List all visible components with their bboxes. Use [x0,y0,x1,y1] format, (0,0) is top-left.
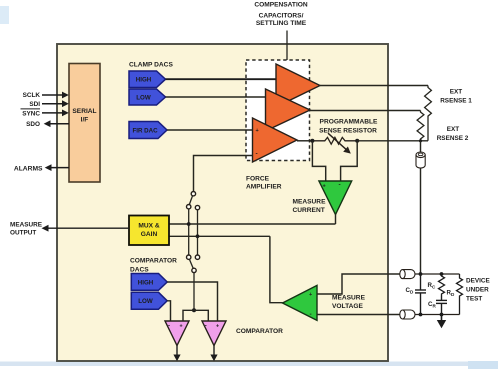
variable resistor arrow [328,133,347,150]
svg-text:+: + [256,128,259,134]
svg-text:SDO: SDO [26,121,40,128]
resistor EXT RSENSE 1 (with tail to sense node) [425,86,432,141]
top-left blue patch [0,6,9,24]
MEASURE OUTPUT label [10,221,43,236]
measure output arrowhead (points left) [42,225,49,232]
svg-text:SETTLING TIME: SETTLING TIME [256,20,307,27]
wire: feedback into A3 inverting input [194,156,254,192]
left comparator output arrow [176,346,178,356]
wire: mux input line 2 [169,235,270,237]
wire: right node down into measure-current - input [341,141,358,182]
measure voltage amp (green, points left) [283,285,318,320]
node: DUT sense [419,313,423,317]
capacitor CR [436,296,447,315]
svg-text:+: + [180,323,183,329]
right comparator output arrow [213,346,215,356]
right sense column wire [197,210,199,255]
bottom blue strip [0,362,498,367]
switch S2 common contact [192,268,196,272]
wire: LOW DAC to force amp 2 [166,96,267,98]
MUX & GAIN block [129,216,169,246]
svg-text:FIR DAC: FIR DAC [132,127,158,134]
compensation label pointer line [286,31,288,61]
wire: HIGH DAC to force amp 1 [166,78,277,80]
force amp A1 (top) [276,64,320,107]
svg-text:CAPACITORS/: CAPACITORS/ [259,13,304,20]
SDI wire [42,103,63,105]
DEVICE UNDER TEST label [466,277,491,302]
node: sense resistor left [310,139,314,143]
comparator DAC HIGH [131,274,167,291]
wire: FIR DAC to force amp 3 [167,129,253,131]
SDO wire [49,123,69,125]
coax connector (top horizontal) [400,270,415,279]
MEASURE CURRENT label [293,199,327,215]
svg-text:LOW: LOW [136,94,151,101]
measure current amp (green, points down) [319,181,352,215]
svg-text:AMPLIFIER: AMPLIFIER [246,183,282,190]
svg-text:CLAMP DACS: CLAMP DACS [129,61,173,68]
svg-text:LOW: LOW [138,298,153,305]
svg-text:MEASURE: MEASURE [332,295,366,302]
compensation dashed box [246,60,310,161]
ALARMS arrowhead (points left) [45,164,52,171]
switch S1 common riser from feedback node [188,209,190,255]
svg-text:FORCE: FORCE [246,176,270,183]
wire: DUT bottom rail [415,314,460,316]
svg-text:+: + [309,292,312,298]
node: comparator common split [192,308,196,312]
wire: cylinder down to DUT force node [420,168,422,274]
wire: measure output [47,227,129,229]
node: sense resistor right [355,139,359,143]
wire: measure voltage - input line [317,314,400,316]
wire: DUT top rail [415,273,460,275]
wire: measure current output down to mux line [335,215,337,225]
node: sense/cylinder junction [419,139,422,142]
wire: measure voltage output riser [270,236,283,302]
serial interface block U1 [69,64,100,183]
coax connector (bottom horizontal) [400,310,415,319]
svg-text:SERIAL: SERIAL [72,108,96,115]
PROGRAMMABLE SENSE RESISTOR label [319,118,378,134]
node: RC top [440,272,444,276]
SYNC arrowhead [62,110,69,117]
COMPARATOR DACS label [130,257,177,273]
wire: sense line to EXT RSENSE bottom node [357,140,428,142]
svg-text:COMPARATOR: COMPARATOR [236,328,283,335]
switch S2 right contact [195,255,199,259]
wire: comparator LOW to left comparator [167,301,170,322]
svg-text:RSENSE 1: RSENSE 1 [440,98,472,105]
compensation capacitors label [254,2,308,27]
svg-text:-: - [205,324,207,330]
SCLK arrowhead [62,92,69,99]
SCLK wire [42,94,63,96]
svg-text:UNDER: UNDER [466,286,489,293]
svg-text:RSENSE 2: RSENSE 2 [437,135,469,142]
SDI arrowhead [62,100,69,107]
node: line2 tap [196,234,200,238]
svg-text:TEST: TEST [466,295,482,302]
vertical force lead: rsense2 to cylinder [420,141,422,153]
capacitor CD [415,274,426,315]
svg-text:GAIN: GAIN [141,231,158,238]
svg-text:COMPARATOR: COMPARATOR [130,257,177,264]
wire: A2 output / sense line to rsense2 top [310,110,421,112]
svg-text:-: - [310,311,312,318]
svg-text:ALARMS: ALARMS [14,165,43,172]
svg-text:CURRENT: CURRENT [293,207,325,214]
svg-text:DEVICE: DEVICE [466,277,491,284]
clamp DAC LOW [129,89,166,105]
MEASURE VOLTAGE label [332,295,366,311]
wire: comparator HIGH to right comparator [167,282,217,322]
wire: measure voltage + input to force/sense node [317,274,400,294]
wire: left node down into measure-current + input [312,141,325,182]
SYNC wire [42,112,63,114]
svg-text:SCLK: SCLK [23,92,41,99]
switch S1 blade [189,196,192,205]
resistor RD [457,274,463,315]
SDO arrowhead (points left) [44,120,51,127]
svg-text:MUX &: MUX & [138,222,159,229]
node: line1 tap [187,222,191,226]
wire: common to both comparator inputs [183,310,208,321]
node: CR bottom [440,313,444,317]
svg-text:OUTPUT: OUTPUT [10,230,36,237]
svg-text:-: - [339,182,341,189]
svg-text:DACS: DACS [130,267,149,274]
svg-text:EXT: EXT [447,126,460,133]
node: DUT force [419,272,423,276]
switch S1 top contact [191,192,195,196]
switch S1 left contact [187,205,191,209]
wire: comparator common riser [193,273,195,311]
resistor RC [439,274,445,296]
resistor EXT RSENSE 2 [417,111,424,141]
switch S2 left contact [187,255,191,259]
svg-text:MEASURE: MEASURE [10,221,43,228]
svg-text:I/F: I/F [81,117,89,124]
switch S2 blade [189,259,193,268]
svg-text:+: + [216,323,219,329]
svg-text:MEASURE: MEASURE [293,199,327,206]
svg-text:+: + [323,184,326,190]
svg-text:VOLTAGE: VOLTAGE [332,303,363,310]
svg-text:SDI: SDI [29,101,40,108]
svg-text:COMPENSATION: COMPENSATION [254,2,308,9]
FORCE AMPLIFIER label [246,176,282,191]
svg-text:HIGH: HIGH [136,77,152,84]
FIR DAC [129,122,167,139]
ALARMS wire [50,167,69,169]
svg-text:EXT: EXT [450,89,463,96]
wire: A1 output to ext rsense 1 [320,85,428,87]
svg-text:PROGRAMMABLE: PROGRAMMABLE [320,118,378,125]
svg-text:-: - [256,151,258,158]
svg-text:-: - [168,324,170,330]
comparator left (pink, points down) [165,321,189,346]
wire: mux input line 1 [169,223,336,225]
programmable sense resistor (zigzag) [312,137,357,144]
coax connector (vertical cylinder) [416,152,425,168]
svg-text:HIGH: HIGH [138,279,154,286]
switch S1 right contact [195,205,199,209]
comparator DAC LOW [131,292,167,309]
main block box [57,44,388,361]
wire: A3 output to sense resistor left node [297,140,312,142]
comparator right (pink, points down) [202,321,226,346]
svg-text:SYNC: SYNC [22,110,40,117]
force amp A2 (middle) [266,89,311,131]
ground arrow below DUT [441,315,443,322]
force amp A3 (bottom) [253,118,298,162]
clamp DAC HIGH [129,71,166,88]
